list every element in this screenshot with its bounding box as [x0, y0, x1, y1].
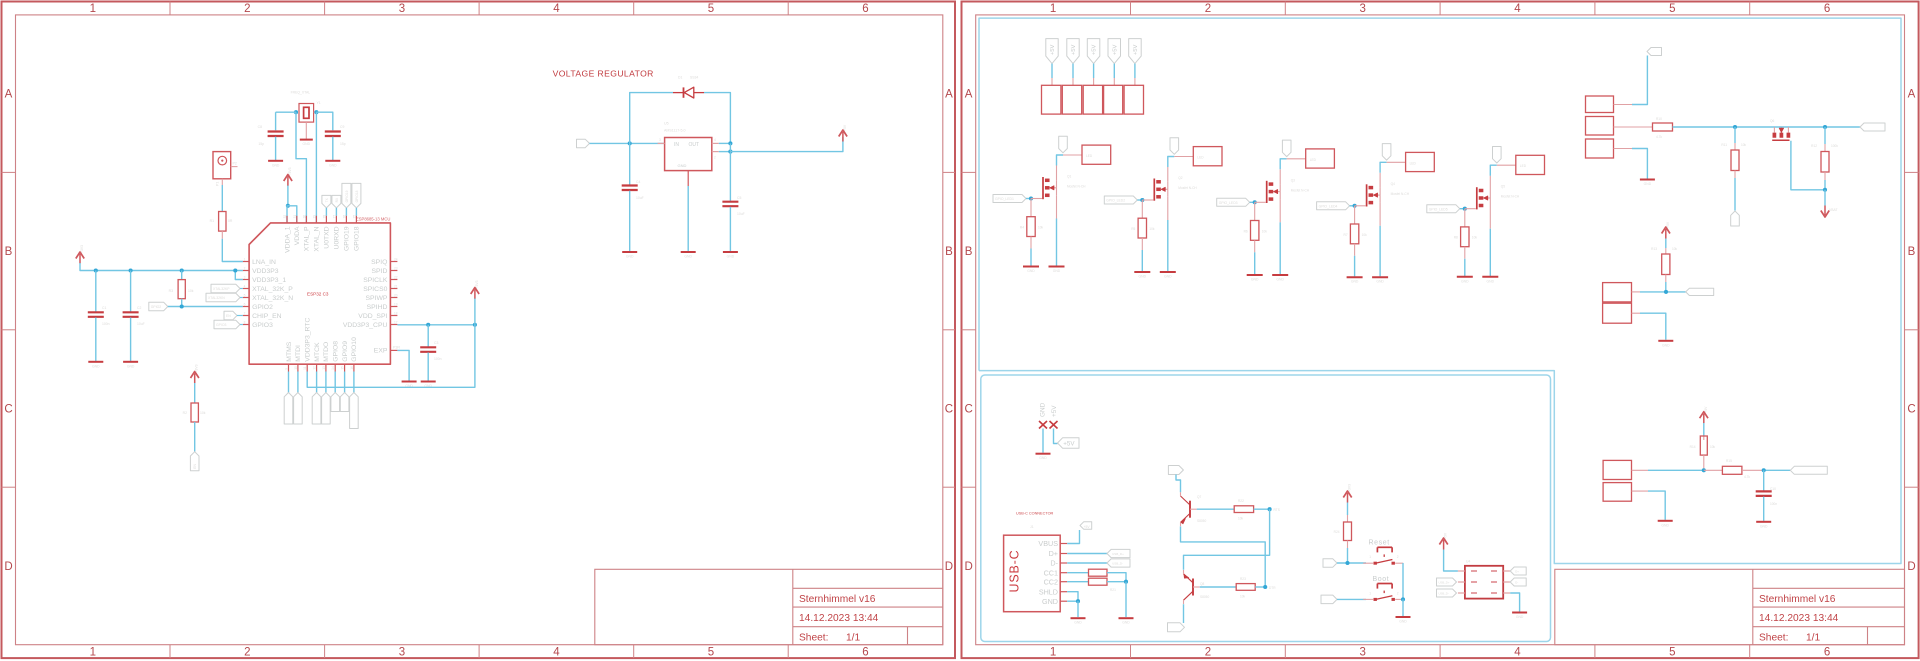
resistor R13 [1665, 239, 1667, 249]
wire to connector [1063, 154, 1082, 156]
svg-text:5: 5 [1669, 647, 1675, 659]
net label EN (vertical) [190, 452, 199, 471]
svg-text:GPIO18: GPIO18 [355, 190, 359, 202]
junction [314, 110, 318, 114]
svg-text:1: 1 [90, 647, 96, 659]
connector J17 [1603, 460, 1631, 479]
svg-text:GND: GND [1376, 280, 1384, 284]
svg-text:24: 24 [394, 257, 398, 261]
ground [622, 251, 637, 253]
svg-text:4: 4 [553, 647, 560, 659]
svg-text:10k: 10k [200, 411, 206, 415]
wire drain up [1168, 157, 1175, 168]
svg-text:S8050: S8050 [1197, 519, 1206, 523]
wire EXP to ground [397, 350, 409, 380]
connector J3 [1193, 147, 1222, 166]
junction [1664, 290, 1668, 294]
svg-text:6: 6 [1824, 647, 1830, 659]
svg-text:Mosfet N-CH: Mosfet N-CH [1291, 188, 1310, 192]
svg-text:GND: GND [1053, 269, 1061, 273]
svg-text:B: B [965, 246, 973, 258]
svg-text:+5V: +5V [1050, 44, 1056, 55]
svg-text:1/1: 1/1 [1806, 633, 1820, 644]
svg-text:CC2: CC2 [1044, 577, 1058, 586]
wire VDD3P3_CPU rail [397, 324, 475, 326]
svg-text:10uF: 10uF [137, 322, 145, 326]
wire [1791, 141, 1825, 190]
transistor Q3 (N-MOSFET) [1255, 201, 1266, 203]
svg-text:USB-C: USB-C [1008, 550, 1022, 593]
resistor R14 [1703, 423, 1705, 436]
net label GPIO (channel 2) [1104, 196, 1137, 204]
net label [1647, 48, 1662, 56]
resistor R11 [1734, 127, 1736, 143]
svg-text:10k: 10k [188, 289, 194, 293]
wire output [730, 137, 843, 152]
svg-text:XTAL32KP: XTAL32KP [213, 287, 230, 291]
svg-text:15p: 15p [340, 142, 346, 146]
svg-text:100k: 100k [1831, 144, 1838, 148]
ground [1396, 616, 1411, 618]
junction [180, 268, 184, 272]
resistor R10 [1653, 123, 1673, 131]
sheet border frame [2, 2, 956, 659]
svg-text:USB_D-: USB_D- [1439, 592, 1449, 596]
svg-text:GND: GND [1039, 456, 1047, 460]
svg-text:CC1: CC1 [1044, 568, 1058, 577]
ground [1247, 274, 1263, 276]
wire [1054, 429, 1058, 444]
connector J5 [1406, 152, 1435, 171]
svg-text:A: A [5, 89, 13, 101]
resistor R22 [1234, 506, 1253, 513]
svg-text:LNA_IN: LNA_IN [252, 259, 276, 266]
svg-text:USB-C CONNECTOR: USB-C CONNECTOR [1016, 512, 1054, 516]
connector J6 [1516, 155, 1545, 174]
connector J12 [1586, 96, 1614, 113]
svg-text:+5V: +5V [1063, 440, 1075, 447]
power flag +5V [1703, 414, 1705, 424]
junction [1124, 580, 1128, 584]
svg-text:Mosfet N-CH: Mosfet N-CH [1501, 195, 1520, 199]
title block [1555, 569, 1905, 644]
svg-text:100n: 100n [434, 357, 442, 361]
svg-text:Boot: Boot [1373, 576, 1390, 583]
net labels at U4 right [1510, 567, 1526, 575]
wire [1350, 205, 1355, 207]
ground [1658, 520, 1673, 522]
svg-text:Sheet:: Sheet: [799, 633, 828, 644]
junction [473, 323, 477, 327]
wire [168, 306, 243, 308]
wire diode branch [630, 93, 673, 144]
net labels MTMS/MTDI (vertical) [288, 372, 290, 393]
svg-text:B: B [945, 246, 953, 258]
wire [1337, 562, 1366, 564]
wire [1254, 508, 1270, 510]
resistor R4 (gate pulldown) [1030, 199, 1032, 217]
svg-text:XTAL_32K_P: XTAL_32K_P [252, 286, 293, 293]
resistor R12 [1824, 127, 1826, 144]
svg-text:C1: C1 [102, 306, 106, 310]
junction [129, 268, 133, 272]
net label [1686, 288, 1714, 295]
svg-text:28: 28 [322, 215, 326, 219]
svg-text:GND: GND [678, 163, 687, 168]
svg-text:LED: LED [1197, 156, 1204, 160]
svg-text:U0TXD: U0TXD [324, 226, 331, 248]
svg-text:+5V: +5V [1666, 221, 1670, 228]
junction [728, 150, 732, 154]
wire [474, 299, 476, 325]
net label GPIO10 (vertical) [353, 372, 355, 393]
svg-text:GND: GND [1251, 278, 1259, 282]
wire source down [1056, 219, 1058, 266]
svg-text:R15: R15 [1726, 459, 1732, 463]
svg-text:LED: LED [1410, 161, 1417, 165]
svg-text:LED: LED [1310, 158, 1317, 162]
wire [1134, 64, 1136, 78]
svg-text:11: 11 [303, 366, 307, 370]
svg-text:Q3: Q3 [1291, 178, 1295, 182]
svg-text:SHLD: SHLD [1039, 587, 1058, 596]
wire [1337, 598, 1366, 600]
svg-text:C: C [4, 404, 12, 416]
svg-text:XTAL32KN: XTAL32KN [208, 296, 225, 300]
resistor R3 (GPIO2 pull-up) [181, 271, 183, 280]
IC U1 EXP pin [390, 349, 397, 351]
svg-text:3: 3 [659, 138, 661, 142]
svg-text:Y1: Y1 [317, 101, 321, 105]
wire source down [1167, 220, 1169, 271]
wire [1125, 582, 1127, 617]
ground [1457, 276, 1473, 278]
capacitor C10 [1763, 470, 1765, 490]
IC U1 top pins [286, 216, 288, 223]
svg-text:6: 6 [1824, 3, 1830, 15]
svg-text:A: A [1908, 89, 1916, 101]
ground [1482, 276, 1498, 278]
svg-text:9: 9 [285, 368, 289, 370]
svg-text:B: B [1908, 246, 1916, 258]
svg-text:Reset: Reset [1369, 540, 1390, 547]
svg-text:2: 2 [244, 3, 250, 15]
svg-text:GND: GND [1351, 280, 1359, 284]
capacitor C2 [130, 271, 132, 312]
ground [1347, 276, 1363, 278]
svg-text:10k: 10k [1238, 517, 1244, 521]
svg-text:R24: R24 [1334, 530, 1340, 534]
svg-text:D: D [945, 561, 953, 573]
title block [595, 569, 943, 644]
power flag +5V [842, 132, 844, 142]
svg-text:USB_D+: USB_D+ [1439, 581, 1450, 585]
wire [1824, 190, 1826, 206]
svg-text:R12: R12 [1811, 144, 1817, 148]
wire emitter cross [1181, 526, 1266, 587]
svg-text:2: 2 [714, 156, 716, 160]
hierarchical block frame (USB-C) [981, 375, 1551, 642]
net label LED4 (vertical) [1382, 144, 1391, 161]
wire [335, 208, 337, 216]
svg-text:D-: D- [1515, 581, 1518, 585]
ground [681, 251, 696, 253]
svg-text:MTDO: MTDO [323, 342, 330, 362]
wire [1402, 599, 1404, 616]
net label [1790, 466, 1827, 474]
net label U0TXD (vertical) [322, 195, 331, 208]
wire drain up [1057, 155, 1064, 166]
svg-text:15: 15 [341, 366, 345, 370]
svg-text:R2: R2 [183, 411, 187, 415]
wire [1042, 429, 1044, 453]
wire drain up [1490, 165, 1497, 176]
transistor Q2 (N-MOSFET) [1142, 199, 1153, 201]
svg-text:Mosfet N-CH: Mosfet N-CH [1178, 186, 1197, 190]
resistor R8 (gate pulldown) [1464, 209, 1466, 227]
connector J4 [1306, 149, 1335, 168]
svg-text:R11: R11 [1721, 143, 1727, 147]
wire [315, 112, 317, 223]
junction [1140, 198, 1144, 202]
svg-text:+5V: +5V [1051, 405, 1058, 417]
connector J18 [1603, 483, 1631, 502]
svg-text:R1: R1 [210, 219, 214, 223]
svg-text:LED: LED [1520, 164, 1527, 168]
svg-text:4: 4 [244, 284, 246, 288]
svg-text:C: C [964, 404, 972, 416]
svg-text:29: 29 [312, 215, 316, 219]
net label RTS [1168, 623, 1185, 632]
svg-text:3: 3 [244, 275, 246, 279]
wire drain up [1280, 159, 1287, 170]
wire CC2 [1067, 581, 1088, 583]
connector J7 [1042, 85, 1061, 114]
wire [719, 142, 731, 144]
ground [1756, 521, 1771, 523]
svg-text:4: 4 [1514, 3, 1521, 15]
ground [1049, 266, 1065, 268]
svg-text:Mosfet N-CH: Mosfet N-CH [1067, 185, 1086, 189]
sheet border frame [962, 2, 1919, 659]
wire base cross [1184, 509, 1270, 570]
junction [1762, 468, 1766, 472]
wire [275, 112, 277, 130]
svg-text:2: 2 [1397, 555, 1399, 559]
junction [233, 268, 237, 272]
wire [276, 111, 296, 113]
svg-text:GPIO3: GPIO3 [216, 323, 226, 327]
svg-text:GND: GND [626, 255, 634, 259]
svg-text:4.7k: 4.7k [1656, 135, 1662, 139]
svg-text:25: 25 [352, 215, 356, 219]
svg-text:J1: J1 [1030, 525, 1034, 529]
net label GPIO9 boot [1321, 595, 1337, 604]
svg-text:10k: 10k [1038, 226, 1044, 230]
svg-text:ESP8685-13 MCU: ESP8685-13 MCU [356, 216, 390, 221]
svg-text:C5: C5 [737, 196, 741, 200]
wire [1250, 201, 1255, 203]
wire [729, 143, 731, 151]
svg-text:GND: GND [1461, 279, 1469, 283]
svg-text:VDD_SPI: VDD_SPI [358, 313, 387, 320]
svg-text:GPIO2: GPIO2 [151, 305, 161, 309]
wire to LNA_IN [222, 239, 243, 262]
svg-text:2: 2 [244, 647, 250, 659]
svg-text:10k: 10k [1472, 236, 1478, 240]
svg-text:VDD3P3_1: VDD3P3_1 [252, 277, 286, 284]
wire [1632, 312, 1641, 314]
ground [1640, 179, 1655, 181]
svg-text:GND: GND [1027, 269, 1035, 273]
svg-text:MTDI: MTDI [295, 345, 302, 362]
svg-text:10k: 10k [1262, 229, 1268, 233]
svg-text:MTMS: MTMS [286, 341, 293, 361]
svg-text:MTCK: MTCK [314, 342, 321, 362]
connector J10 [1104, 85, 1123, 114]
svg-text:D+: D+ [1515, 570, 1519, 574]
connector J8 [1062, 85, 1081, 114]
svg-text:Q2: Q2 [1178, 176, 1182, 180]
svg-text:GND: GND [1661, 523, 1669, 527]
svg-text:VBAT: VBAT [1829, 208, 1838, 212]
junction [1401, 597, 1405, 601]
ground [1023, 266, 1039, 268]
svg-text:1: 1 [1369, 555, 1371, 559]
svg-text:GND: GND [1662, 343, 1670, 347]
transistor Q4 (N-MOSFET) [1355, 205, 1366, 207]
svg-text:EN: EN [193, 464, 197, 469]
ground [268, 160, 283, 162]
svg-text:3: 3 [1359, 3, 1365, 15]
junction [1823, 188, 1827, 192]
svg-text:Sternhimmel v16: Sternhimmel v16 [1759, 594, 1836, 605]
svg-text:D-: D- [1050, 559, 1058, 568]
svg-text:+3V3: +3V3 [195, 364, 199, 372]
svg-text:P3R: P3R [393, 346, 400, 350]
ground [123, 361, 138, 363]
wire [1072, 64, 1074, 78]
svg-text:C4: C4 [636, 180, 640, 184]
svg-text:2: 2 [1205, 3, 1211, 15]
svg-text:10k: 10k [1362, 233, 1368, 237]
svg-text:VOLTAGE REGULATOR: VOLTAGE REGULATOR [553, 69, 654, 79]
power flag +3V3 (VDD rail) [79, 254, 81, 264]
svg-text:GND: GND [1516, 615, 1524, 619]
svg-text:+5V: +5V [1704, 406, 1708, 413]
junction [1076, 599, 1080, 603]
svg-text:C3: C3 [434, 341, 438, 345]
wire [288, 206, 297, 223]
connector J9 [1083, 85, 1102, 114]
wire [1113, 64, 1115, 78]
svg-text:GND: GND [1399, 620, 1407, 624]
net labels MTCK/MTDO (vertical) [316, 372, 318, 393]
svg-text:22: 22 [394, 275, 398, 279]
svg-text:C: C [945, 404, 953, 416]
svg-text:27: 27 [332, 215, 336, 219]
power tag +5V small [1080, 522, 1092, 530]
svg-text:R14: R14 [1690, 445, 1696, 449]
resistor R1 [221, 179, 223, 185]
svg-text:17: 17 [394, 320, 398, 324]
svg-text:3: 3 [399, 3, 405, 15]
wire [704, 93, 730, 144]
svg-text:5: 5 [1669, 3, 1675, 15]
net label GPIO (channel 1) [993, 195, 1026, 203]
net labels at left pins [211, 284, 240, 293]
junction [294, 110, 298, 114]
svg-text:32: 32 [283, 215, 287, 219]
svg-text:VDD3P3_RTC: VDD3P3_RTC [305, 318, 312, 362]
svg-text:12: 12 [313, 366, 317, 370]
svg-text:USB_D-: USB_D- [1112, 562, 1123, 566]
net label +12V input [577, 139, 590, 148]
capacitor C9 [325, 130, 341, 132]
resistor R5 (gate pulldown) [1141, 200, 1143, 218]
svg-text:U5: U5 [664, 122, 669, 126]
junction [628, 141, 632, 145]
transistor Q5 (N-MOSFET) [1465, 208, 1476, 210]
svg-text:1: 1 [90, 3, 96, 15]
wire [1444, 550, 1458, 572]
power flag VDDA [287, 177, 289, 187]
capacitor C1 [95, 271, 97, 312]
svg-text:GND: GND [1487, 279, 1495, 283]
svg-text:GPIO_LED5: GPIO_LED5 [1429, 207, 1448, 211]
svg-text:GND: GND [1039, 402, 1046, 417]
svg-text:1: 1 [1050, 3, 1056, 15]
svg-text:USB_D+: USB_D+ [1112, 552, 1124, 556]
svg-text:R10: R10 [1656, 117, 1662, 121]
wire [1030, 237, 1032, 249]
svg-text:P1: P1 [216, 182, 220, 186]
svg-text:4: 4 [553, 3, 560, 15]
net label USB_D+ [1107, 549, 1130, 557]
svg-text:Q7: Q7 [1197, 495, 1201, 499]
svg-text:GPIO19: GPIO19 [345, 190, 349, 202]
wire source down [1379, 226, 1381, 277]
wire [1137, 199, 1142, 201]
wire [1141, 238, 1143, 250]
IC U1 left pins [243, 261, 249, 263]
svg-text:Q5: Q5 [1501, 185, 1505, 189]
wire [1632, 291, 1641, 293]
svg-text:CHIP_EN: CHIP_EN [252, 313, 282, 320]
wire SHLD [1067, 592, 1078, 602]
svg-text:5: 5 [244, 293, 246, 297]
junction [1733, 125, 1737, 129]
wire VDD3P3_1 jog [235, 271, 243, 280]
svg-text:+3V3: +3V3 [80, 245, 84, 253]
net label GPIO (channel 3) [1217, 198, 1250, 206]
svg-text:Sternhimmel v16: Sternhimmel v16 [799, 594, 876, 605]
svg-text:6: 6 [862, 647, 868, 659]
wire [1077, 601, 1079, 617]
wire [1051, 64, 1053, 78]
resistor R21 [1089, 578, 1108, 585]
power tag +5V [1058, 438, 1080, 449]
resistor R6 (gate pulldown) [1254, 202, 1256, 220]
wire [80, 263, 243, 271]
wire [1093, 64, 1095, 78]
svg-text:R5: R5 [1131, 227, 1135, 231]
svg-text:31: 31 [293, 215, 297, 219]
wire [325, 208, 327, 216]
ground [1071, 617, 1086, 619]
svg-text:OUT: OUT [689, 142, 700, 148]
svg-text:GPIO2: GPIO2 [252, 304, 273, 311]
